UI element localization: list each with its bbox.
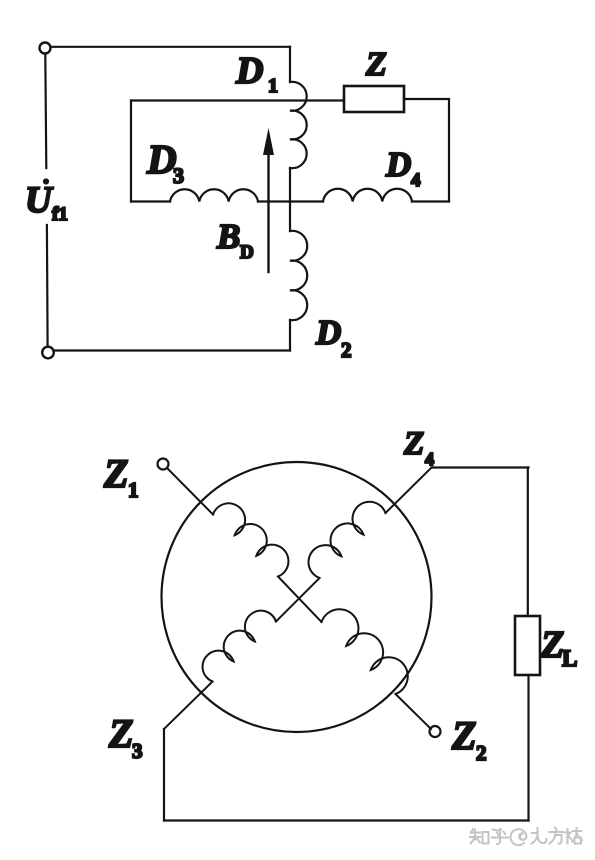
wire top corner down to D1 (289, 47, 291, 82)
svg-text:4: 4 (411, 170, 421, 191)
wire NW to SE through center (278, 577, 322, 623)
wire top run to Z4 corner (432, 466, 529, 468)
svg-text:Z: Z (108, 711, 133, 756)
load ZL box (515, 616, 540, 675)
wire center node down to D2 (289, 202, 291, 231)
svg-text:L: L (562, 646, 577, 671)
winding SW (203, 611, 276, 682)
wire right riser lower (527, 675, 529, 821)
svg-text:Z: Z (540, 624, 564, 666)
svg-text:Z: Z (103, 451, 128, 496)
terminal T2 (42, 347, 54, 359)
svg-text:U: U (25, 180, 54, 221)
wire main horizontal tap y=100 (131, 99, 344, 101)
wire D1 to center node (289, 168, 291, 202)
wire left source lower (46, 225, 49, 347)
winding NE (309, 502, 386, 578)
winding SE (322, 609, 408, 694)
svg-text:2: 2 (341, 338, 352, 362)
winding D4 (323, 189, 412, 202)
wire Z1 lead (167, 468, 213, 515)
wire T1 to top corner (51, 46, 290, 48)
terminal Z1 (158, 459, 169, 470)
winding D3 (170, 189, 258, 201)
terminal Z2 (430, 726, 441, 737)
winding D2 (290, 231, 307, 320)
flux arrow BD (267, 152, 269, 272)
svg-text:D: D (235, 50, 263, 92)
svg-text:1: 1 (128, 478, 139, 502)
svg-text:D: D (385, 145, 411, 184)
svg-text:D: D (240, 242, 254, 263)
winding NW (213, 503, 288, 576)
wire left box left edge (130, 101, 132, 202)
svg-text:D: D (315, 313, 341, 352)
wire Z3 lead (164, 682, 213, 730)
wire bottom return to T2 (54, 349, 290, 351)
wire left source upper (45, 54, 46, 168)
svg-text:1: 1 (268, 75, 278, 97)
stator circle (162, 462, 432, 732)
winding D1 (290, 82, 307, 168)
svg-text:Z: Z (451, 713, 476, 758)
wire right riser upper (527, 468, 529, 617)
svg-text:2: 2 (476, 741, 487, 765)
wire Z4 lead (386, 468, 432, 514)
wire D2 down to bottom row (289, 320, 291, 351)
terminal T1 (40, 43, 51, 54)
wire Z2 lead (396, 694, 432, 729)
svg-text:Z: Z (365, 46, 387, 83)
watermark zhihu (470, 828, 582, 846)
svg-text:Z: Z (403, 426, 424, 462)
svg-text:3: 3 (132, 739, 143, 763)
wire left drop from Z3 corner (163, 729, 165, 821)
wire NE to SW through center (276, 578, 320, 622)
svg-text:f1: f1 (52, 204, 68, 225)
svg-text:4: 4 (425, 449, 434, 469)
impedance Z box (344, 86, 404, 112)
svg-text:B: B (216, 217, 240, 256)
wire bottom run (164, 819, 529, 821)
wire Z box to right corner (404, 99, 449, 202)
svg-text:3: 3 (173, 163, 184, 188)
wire bottom horizontal row (131, 200, 449, 202)
